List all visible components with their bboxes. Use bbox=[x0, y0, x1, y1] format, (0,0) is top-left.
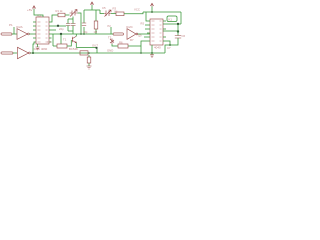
wire junction to R4 top bbox=[60, 34, 62, 44]
IC1 bottom pin wire bbox=[37, 44, 39, 47]
junction bbox=[177, 30, 179, 32]
junction bbox=[80, 33, 82, 35]
svg-text:GND: GND bbox=[107, 49, 113, 53]
svg-text:4060: 4060 bbox=[41, 47, 48, 51]
vertical with C4 bbox=[83, 10, 85, 34]
junction bbox=[151, 11, 153, 13]
wire IC2 right pin y25 bbox=[163, 23, 181, 25]
capacitor C7 bbox=[87, 57, 91, 63]
svg-text:R6: R6 bbox=[119, 40, 123, 44]
svg-text:P1: P1 bbox=[9, 23, 13, 27]
wire IC2 right pin y31 bbox=[163, 30, 178, 32]
wire T1 emitter down bbox=[75, 43, 77, 48]
wire into pin X3 bbox=[111, 27, 113, 34]
IC1 right pin stubs y38 y42 bbox=[49, 38, 52, 42]
wire T2 to R6 bbox=[112, 44, 118, 46]
trimmer capacitor C5 bbox=[104, 10, 111, 17]
svg-text:C7: C7 bbox=[167, 46, 171, 50]
svg-text:22p: 22p bbox=[59, 27, 64, 31]
IC2 bottom pin wire bbox=[151, 45, 153, 53]
svg-text:IC1: IC1 bbox=[37, 13, 42, 17]
wire trimmer to R3 bbox=[111, 13, 116, 15]
IC2 left pin wires bbox=[144, 12, 150, 41]
junction bbox=[32, 52, 34, 54]
svg-text:VCC: VCC bbox=[134, 7, 140, 11]
resistor R4 bbox=[57, 44, 67, 48]
rail2 bbox=[143, 11, 181, 13]
wire: up from bottom net into IC1 bbox=[33, 42, 36, 53]
wires C3 bbox=[68, 17, 73, 35]
wire IC2 pin41 to bottom net bbox=[141, 41, 147, 53]
wire from VCC1 to IC1 bbox=[34, 9, 43, 17]
svg-text:IC2C: IC2C bbox=[126, 25, 134, 29]
wires C2 bbox=[67, 19, 69, 31]
wire cap to gnd branch bbox=[88, 55, 90, 66]
connector pin X1 bbox=[1, 33, 12, 35]
svg-text:4040: 4040 bbox=[154, 45, 161, 49]
connector pin X3 bbox=[113, 33, 124, 35]
svg-text:C5: C5 bbox=[102, 6, 106, 10]
capacitor C3 bbox=[71, 24, 76, 26]
inline resistor R5 on bottom net bbox=[80, 51, 88, 55]
junction bbox=[95, 47, 97, 49]
wire R3 right to rail2 bbox=[124, 12, 143, 14]
junction bbox=[57, 25, 59, 27]
capacitor C4 bbox=[82, 23, 86, 26]
power arrow VCC2 bbox=[90, 2, 93, 5]
svg-text:OUT: OUT bbox=[92, 44, 98, 48]
svg-text:T2: T2 bbox=[108, 35, 112, 39]
power arrow VCC3 bbox=[150, 3, 153, 6]
IC1 right pin stub y30 bbox=[49, 29, 56, 31]
trimmer capacitor C1 bbox=[70, 10, 78, 17]
wire: triangle B output long bottom net bbox=[30, 52, 165, 54]
junction bbox=[169, 44, 171, 46]
svg-text:IC2A: IC2A bbox=[16, 25, 23, 29]
svg-text:+5V: +5V bbox=[27, 8, 32, 12]
wire IC1 pin to R1 bbox=[49, 15, 58, 22]
svg-text:R4: R4 bbox=[48, 40, 52, 44]
resistor R6 bbox=[118, 44, 128, 48]
IC1 box bbox=[36, 17, 49, 44]
capacitor C2 bbox=[66, 24, 71, 26]
resistor R3 bbox=[116, 12, 124, 16]
wire C6 down bbox=[165, 38, 178, 53]
wire crystal branch bbox=[97, 10, 104, 14]
junction bbox=[88, 52, 90, 54]
wire IC1 pin y26 bbox=[49, 25, 66, 27]
ground bbox=[87, 66, 92, 69]
buffer U2C bbox=[127, 29, 138, 40]
IC2 right pin stubs bbox=[163, 21, 166, 37]
svg-text:1M: 1M bbox=[94, 30, 98, 34]
junction bbox=[151, 52, 153, 54]
wire y47.5 bbox=[76, 48, 97, 54]
transistor T2 bbox=[110, 39, 114, 45]
resistor R1 bbox=[58, 13, 65, 17]
svg-text:R7: R7 bbox=[130, 38, 134, 42]
svg-text:K1: K1 bbox=[169, 18, 173, 22]
svg-text:IC2B: IC2B bbox=[33, 47, 40, 51]
wire bbox=[29, 33, 36, 35]
ground below net bbox=[151, 53, 153, 55]
resistor R2 bbox=[94, 21, 98, 29]
vertical stub at pin A bbox=[13, 27, 15, 34]
wire trimmer to vertical bbox=[78, 13, 82, 34]
wire down from junction bbox=[177, 24, 179, 36]
ground bbox=[36, 47, 40, 50]
vertical with R2 bbox=[95, 10, 97, 34]
IC1 pin labels inside bbox=[38, 22, 48, 42]
buffer U2A bbox=[17, 29, 29, 40]
wire R4 to Q base bbox=[67, 40, 71, 46]
junction bbox=[140, 52, 142, 54]
long net wire y34 bbox=[49, 33, 111, 35]
wire VCC2 stem bbox=[91, 5, 93, 10]
connector pin X2 bbox=[1, 52, 13, 54]
wire R1 to trimmer bbox=[65, 14, 70, 16]
wire T1 collector up bbox=[75, 34, 77, 36]
svg-text:R1 1k: R1 1k bbox=[56, 9, 64, 13]
svg-text:Q9: Q9 bbox=[138, 33, 142, 37]
top rail from VCC2 bbox=[84, 9, 97, 11]
capacitor C6 bbox=[175, 36, 181, 39]
IC2 box bbox=[150, 19, 163, 45]
transistor T1 bbox=[72, 36, 76, 42]
buffer U2B bbox=[18, 47, 31, 58]
wire to R4 bbox=[53, 34, 57, 46]
IC2 pin labels inside bbox=[152, 21, 162, 41]
svg-text:1M: 1M bbox=[114, 9, 119, 13]
connector SV1 (green outline) bbox=[167, 16, 177, 22]
junction bbox=[60, 33, 62, 35]
svg-text:RS: RS bbox=[141, 21, 145, 25]
wire rail down right edge bbox=[180, 12, 182, 24]
wire VCC3 stem bbox=[151, 7, 153, 13]
wire bbox=[12, 33, 17, 35]
wire bbox=[13, 52, 17, 54]
wire buffer C out to IC2 bbox=[138, 33, 150, 34]
wire IC2 right pin y41 bbox=[163, 41, 170, 45]
svg-text:C6: C6 bbox=[182, 34, 186, 38]
svg-text:T1: T1 bbox=[63, 38, 67, 42]
junction bbox=[83, 33, 85, 35]
junction bbox=[177, 23, 179, 25]
wire R6 to right bbox=[128, 45, 141, 47]
IC1 left pin stubs bbox=[33, 22, 36, 38]
power arrow VCC1 bbox=[32, 6, 35, 9]
